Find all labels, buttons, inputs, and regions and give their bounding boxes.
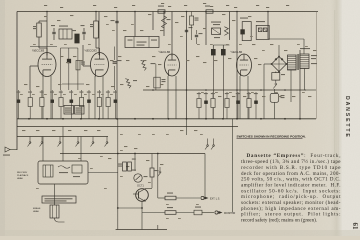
wire vertical feeder 9 — [205, 12, 207, 46]
valve V1 1/2ECC83 — [32, 48, 56, 76]
caption switches note — [237, 134, 306, 138]
head output box — [42, 196, 76, 203]
wire cathode lead 6 — [175, 76, 177, 119]
resistor mid-row 3 — [211, 92, 215, 119]
switch contact S5 — [91, 137, 95, 147]
resistor R9 zigzag 470K — [141, 60, 156, 70]
network treble-cut box — [59, 26, 72, 40]
wire vertical feeder 3 — [116, 12, 118, 119]
wire cathode lead 1 — [42, 76, 44, 119]
wire head to meter — [88, 172, 118, 174]
switch contact S1 — [28, 137, 32, 147]
wire interstage V2V3 — [115, 47, 156, 91]
resistor R13 zigzag — [224, 27, 228, 36]
rectifier MR1 bridge — [271, 56, 288, 73]
capacitor mid-row 2 — [204, 92, 208, 119]
capacitor under-valve 6 — [69, 90, 73, 119]
resistor R11 dropper — [162, 16, 171, 28]
resistor R34 15K — [128, 159, 136, 172]
label value specks — [20, 14, 316, 219]
capacitor C20 electrolytic — [211, 45, 216, 119]
resistor R14 screen feed — [190, 12, 199, 41]
socket J2 ext speaker — [201, 196, 220, 200]
wire main earth bus — [17, 118, 316, 120]
wire vertical feeder 13 — [299, 50, 301, 119]
transistor Q1 OC71 — [133, 184, 148, 202]
switch contact S10 — [158, 167, 162, 177]
control VR2 tone box — [75, 106, 85, 115]
capacitor mid-row 7 — [254, 92, 258, 119]
switch contact S6 — [105, 137, 109, 147]
resistor R1 anode load — [33, 21, 47, 56]
capacitor C1 coupling — [51, 25, 56, 40]
wire vertical feeder 8 — [186, 12, 188, 119]
resistor mid-row 6 — [247, 92, 251, 119]
wire vertical feeder 5 — [152, 12, 154, 31]
switch contact mains — [273, 80, 276, 88]
fuse FS1 — [272, 72, 285, 81]
resistor R3 anode load — [90, 12, 100, 56]
resistor mid-row 4 — [225, 92, 229, 119]
wire transformer secondary — [279, 69, 316, 103]
wire collector — [142, 189, 152, 230]
switch contact S4 — [76, 137, 80, 147]
wire lower supply bus — [17, 126, 238, 128]
record-playback head RPH — [38, 161, 88, 184]
capacitor under-valve 1 — [16, 90, 20, 119]
switch contact SR2 — [211, 139, 215, 150]
wire interstage verticals V1V2 — [61, 48, 85, 90]
capacitor C6 coupling — [113, 60, 122, 63]
resistor under-valve 10 — [106, 90, 110, 119]
wire cathode lead 8 — [247, 76, 249, 119]
wire vertical feeder 4 — [134, 12, 136, 37]
label top rail specks — [44, 3, 289, 8]
wire to monitor socket — [142, 212, 214, 214]
valve V3 1/2ECL86 — [159, 50, 180, 76]
capacitor under-valve 8 — [87, 90, 91, 119]
label osc — [211, 22, 221, 26]
capacitor C30 — [194, 207, 202, 215]
wire vertical feeder 10 — [236, 12, 238, 119]
resistor R6 grid — [76, 60, 85, 70]
wire vertical feeder 2 — [98, 12, 100, 56]
resistor under-valve 2 — [28, 90, 32, 119]
resistor R32 1K — [165, 193, 176, 200]
resistor R31 — [150, 154, 159, 189]
voltage selector box — [256, 21, 269, 39]
resistor under-valve 3 — [40, 90, 44, 119]
capacitor C10 — [195, 30, 203, 44]
network osc tuning box — [212, 28, 221, 38]
wire right frame faint — [316, 12, 318, 119]
wire head feed — [43, 127, 81, 162]
resistor R8 zigzag — [125, 79, 137, 89]
resistor under-valve 9 — [97, 90, 101, 119]
resistor R30 4.7K — [118, 162, 126, 171]
wire cathode lead 2 — [50, 76, 52, 119]
wire top HT rail — [17, 11, 318, 13]
label page number 61 — [351, 223, 359, 231]
wire vertical feeder 11 — [229, 12, 231, 41]
capacitor mid-row 5 — [236, 92, 240, 119]
transformer T1 mains — [288, 48, 318, 70]
wire cathode lead 3 — [94, 76, 96, 119]
switch box S1 — [125, 37, 159, 48]
resistor under-valve 5 — [59, 90, 63, 119]
socket J3 monitor — [215, 211, 236, 215]
wire switch bus — [17, 136, 108, 138]
erase head EH — [50, 184, 65, 222]
control VR3 gain — [154, 77, 166, 88]
wire vertical feeder 1 — [46, 12, 48, 56]
wire meter rail — [60, 153, 205, 155]
wire vertical feeder 6 — [163, 12, 165, 37]
switch contact SR1 — [205, 139, 209, 150]
label erase head — [33, 207, 41, 213]
resistor mid-row 1 — [197, 92, 201, 119]
description text block — [241, 153, 341, 223]
control VR1 volume box — [64, 106, 74, 115]
capacitor C25 smoothing — [270, 89, 284, 119]
wire grid link V2 — [83, 45, 91, 66]
capacitor under-valve 4 — [50, 90, 54, 119]
wire to ext ls socket — [158, 197, 206, 199]
wire coupling row — [30, 46, 57, 48]
oscillator coil L1 — [240, 18, 251, 41]
resistor R10 on rail — [158, 6, 165, 14]
wire left frame rail — [16, 12, 18, 151]
capacitor under-valve 11 — [113, 90, 117, 119]
resistor R12 fuse on rail — [205, 6, 213, 14]
capacitor C8 — [111, 20, 119, 23]
capacitor C9 — [185, 27, 193, 32]
valve V4 1/2ECL86 — [231, 50, 252, 76]
label record-playback head — [17, 172, 29, 180]
resistor R2 — [72, 30, 79, 43]
wire meter verticals — [118, 119, 233, 230]
meter M1 level — [131, 170, 148, 183]
wire cathode lead 5 — [167, 76, 169, 119]
wire HT feed rail — [143, 89, 306, 91]
socket J1 microphone — [3, 147, 17, 156]
switch contact S3 — [58, 137, 62, 147]
capacitor C2 — [81, 25, 86, 40]
resistor R33 100K — [165, 207, 176, 214]
switch contact S2 — [40, 137, 44, 147]
wire cathode lead 7 — [239, 76, 241, 119]
wire transformer primary — [268, 39, 309, 54]
wire bottom return — [116, 225, 167, 230]
valve V2 1/2ECC83 — [85, 48, 109, 76]
capacitor C4 interstage — [67, 59, 71, 63]
wire cathode lead 4 — [102, 76, 104, 119]
wire vertical feeder 7 — [171, 12, 173, 57]
resistor under-valve 7 — [79, 90, 83, 119]
capacitor C21 electrolytic — [213, 45, 229, 119]
wire grid link V1 — [30, 66, 39, 90]
wire bridge to bus — [264, 45, 279, 119]
wire emitter link — [117, 207, 143, 209]
label DANSETTE vertical — [344, 96, 350, 139]
wire vertical feeder 12 — [267, 12, 269, 40]
